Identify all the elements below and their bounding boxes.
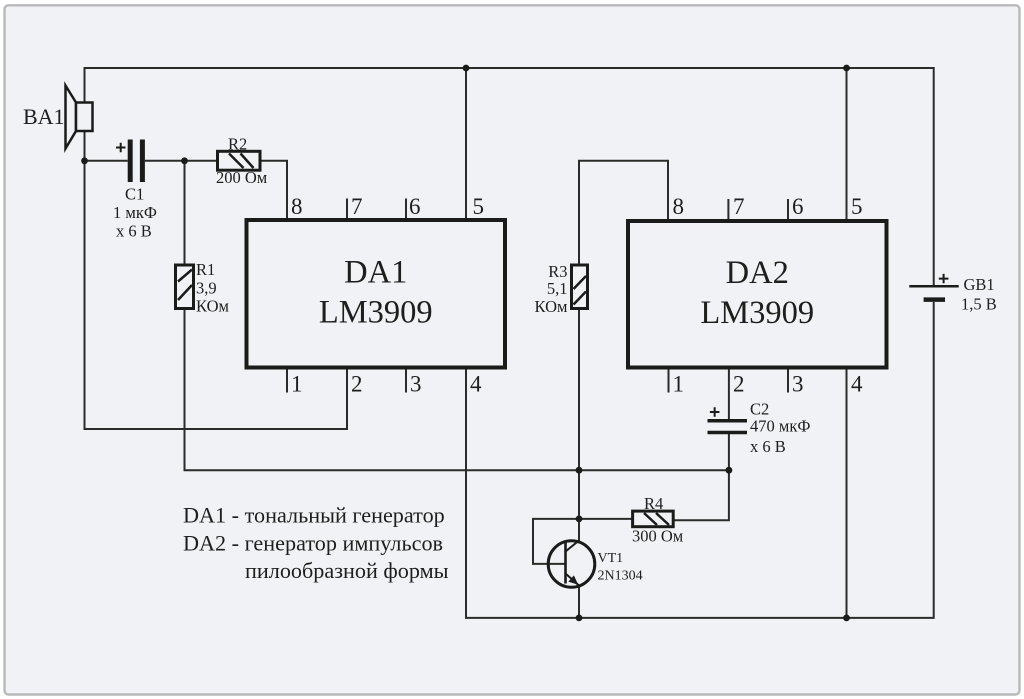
pin tick DA2 pin3 bbox=[787, 368, 789, 393]
resistor R1 bbox=[176, 260, 230, 316]
note text line 1 bbox=[183, 503, 445, 528]
node DA2 pin4 / ground rail bbox=[843, 615, 850, 622]
battery GB1 bbox=[909, 274, 996, 314]
svg-text:2: 2 bbox=[733, 372, 745, 397]
wire C1 left segment bbox=[85, 160, 128, 162]
node speaker / C1 bbox=[81, 157, 88, 164]
svg-text:2: 2 bbox=[351, 372, 363, 397]
svg-text:200 Ом: 200 Ом bbox=[216, 168, 268, 187]
capacitor C2 bbox=[708, 400, 811, 457]
svg-text:LM3909: LM3909 bbox=[319, 295, 433, 331]
node C1 / R1 bbox=[181, 157, 188, 164]
svg-text:7: 7 bbox=[351, 194, 363, 219]
pin tick DA2 pin7 bbox=[727, 199, 729, 221]
node top rail / DA2 pin5 bbox=[843, 65, 850, 72]
wire speaker bottom down, across to DA1 pin2 bbox=[85, 131, 348, 430]
svg-text:3: 3 bbox=[792, 372, 804, 397]
svg-text:LM3909: LM3909 bbox=[700, 295, 814, 331]
pin 5 label DA1 bbox=[473, 194, 485, 219]
svg-text:4: 4 bbox=[851, 372, 863, 397]
wire R1 top bbox=[184, 161, 186, 265]
svg-text:BA1: BA1 bbox=[23, 104, 65, 129]
svg-text:8: 8 bbox=[291, 194, 303, 219]
pin 1 label DA1 bbox=[291, 372, 303, 397]
pin 8 label DA1 bbox=[291, 194, 303, 219]
node R3 / lower rail bbox=[576, 467, 583, 474]
pin 6 label DA2 bbox=[792, 194, 804, 219]
svg-text:GB1: GB1 bbox=[964, 275, 995, 294]
svg-text:2N1304: 2N1304 bbox=[598, 569, 643, 584]
svg-text:4: 4 bbox=[470, 372, 482, 397]
svg-text:1: 1 bbox=[291, 372, 303, 397]
wire battery top drop bbox=[933, 67, 935, 285]
resistor R3 bbox=[535, 262, 588, 316]
pin tick DA1 pin3 bbox=[405, 368, 407, 393]
svg-text:DA2 - генератор импульсов: DA2 - генератор импульсов bbox=[183, 531, 443, 556]
pin 6 label DA1 bbox=[409, 194, 421, 219]
svg-text:1 мкФ: 1 мкФ bbox=[113, 203, 157, 222]
svg-text:1,5 В: 1,5 В bbox=[961, 295, 997, 314]
pin 3 label DA1 bbox=[410, 372, 422, 397]
svg-text:R1: R1 bbox=[196, 260, 215, 279]
node emitter / ground rail bbox=[576, 615, 583, 622]
svg-text:300 Ом: 300 Ом bbox=[632, 527, 684, 546]
svg-text:x 6 В: x 6 В bbox=[116, 222, 152, 241]
pin 8 label DA2 bbox=[673, 194, 685, 219]
svg-text:DA1: DA1 bbox=[344, 255, 407, 291]
svg-text:3,9: 3,9 bbox=[196, 279, 217, 298]
wire battery bottom to ground rail to DA1 pin4 bbox=[466, 302, 934, 618]
svg-text:3: 3 bbox=[410, 372, 422, 397]
svg-text:R4: R4 bbox=[644, 494, 663, 513]
svg-text:1: 1 bbox=[673, 372, 685, 397]
wire top rail bbox=[85, 67, 934, 69]
svg-text:пилообразной формы: пилообразной формы bbox=[245, 558, 449, 583]
pin tick DA1 pin7 bbox=[346, 199, 348, 221]
transistor Q1: VT1 2N1304 bbox=[548, 541, 642, 588]
capacitor C1 bbox=[113, 140, 157, 241]
op-amp U2: IC DA2 LM3909 bbox=[628, 221, 887, 368]
node top rail / DA1 pin5 bbox=[463, 65, 470, 72]
wire VT1 emitter down bbox=[578, 586, 580, 618]
wire C1 right to R2 bbox=[145, 160, 218, 162]
pin tick DA1 pin6 bbox=[405, 199, 407, 221]
op-amp U1: IC DA1 LM3909 bbox=[247, 220, 506, 368]
wire R1 bottom long horizontal to C2 bottom bbox=[185, 309, 729, 471]
pin 2 label DA2 bbox=[733, 372, 745, 397]
node collector / R4 left bbox=[576, 516, 583, 523]
note text line 3 bbox=[245, 558, 449, 583]
svg-text:КОм: КОм bbox=[196, 297, 230, 316]
svg-text:C1: C1 bbox=[125, 185, 144, 204]
wire DA2 pin5 drop bbox=[846, 67, 848, 221]
wire R4 left to VT1 base bbox=[533, 519, 633, 564]
svg-text:x 6 В: x 6 В bbox=[750, 437, 786, 456]
pin 4 label DA1 bbox=[470, 372, 482, 397]
svg-text:VT1: VT1 bbox=[598, 551, 624, 566]
pin tick DA2 pin6 bbox=[787, 199, 789, 221]
svg-text:6: 6 bbox=[792, 194, 804, 219]
pin tick DA1 pin1 bbox=[286, 368, 288, 393]
svg-text:R2: R2 bbox=[228, 135, 247, 154]
pin 2 label DA1 bbox=[351, 372, 363, 397]
wire DA2 pin2 to C2 bbox=[728, 368, 730, 420]
wire C2 bottom through node to R4 right bbox=[673, 434, 729, 520]
wire DA2 pin4 drop to ground rail bbox=[846, 368, 848, 618]
svg-text:5: 5 bbox=[851, 194, 863, 219]
resistor R2 bbox=[216, 135, 268, 188]
svg-text:6: 6 bbox=[409, 194, 421, 219]
svg-text:470 мкФ: 470 мкФ bbox=[750, 417, 810, 436]
note text line 2 bbox=[183, 531, 443, 556]
wire speaker top drop bbox=[84, 67, 86, 103]
pin 7 label DA1 bbox=[351, 194, 363, 219]
wire R2 to DA1 pin8 bbox=[260, 161, 287, 220]
svg-text:DA2: DA2 bbox=[726, 255, 789, 291]
pin 3 label DA2 bbox=[792, 372, 804, 397]
pin 4 label DA2 bbox=[851, 372, 863, 397]
wire VT1 collector up bbox=[578, 519, 580, 541]
resistor R4 bbox=[632, 494, 684, 546]
svg-text:5,1: 5,1 bbox=[547, 279, 568, 298]
pin 5 label DA2 bbox=[851, 194, 863, 219]
wire R3 bottom to collector node bbox=[578, 309, 580, 519]
wire DA1 pin5 drop bbox=[465, 67, 467, 220]
speaker BA1 bbox=[23, 86, 93, 149]
node C2 / R4 bbox=[726, 467, 733, 474]
pin 1 label DA2 bbox=[673, 372, 685, 397]
svg-text:7: 7 bbox=[733, 194, 745, 219]
pin 7 label DA2 bbox=[733, 194, 745, 219]
svg-text:DA1 - тональный генератор: DA1 - тональный генератор bbox=[183, 503, 445, 528]
pin tick DA2 pin1 bbox=[668, 368, 670, 393]
svg-text:КОм: КОм bbox=[535, 297, 569, 316]
wire R3 top to DA2 pin8 bbox=[579, 161, 668, 265]
svg-text:8: 8 bbox=[673, 194, 685, 219]
svg-text:5: 5 bbox=[473, 194, 485, 219]
